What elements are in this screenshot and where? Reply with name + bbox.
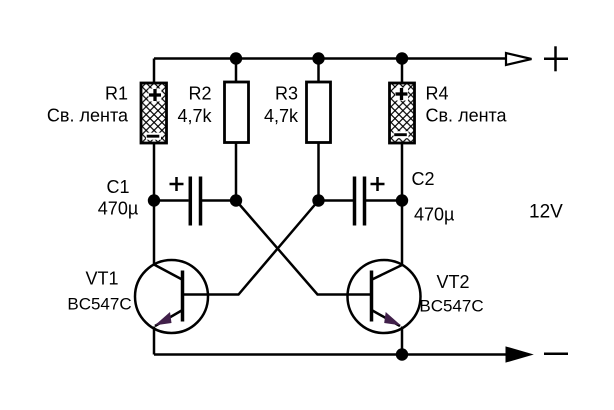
svg-text:R3: R3 [275,84,298,104]
resistor R3 [307,82,331,143]
wire node D down to VT2 collector [401,201,404,266]
node C (R3/C2) [312,194,324,206]
wire R1 top [153,59,156,84]
transistor VT1 [135,260,208,333]
transistor VT2 [348,260,421,333]
capacitor C2 [319,177,403,226]
wire R4 top [401,59,404,84]
wire node C to VT1 base (cross-coupling) [183,201,319,295]
top rail junction dot (R2) [230,52,242,64]
wire VT1 emitter to bottom rail [153,327,156,355]
top rail junction dot (R4) [396,52,408,64]
terminal arrow - (filled) [506,347,532,362]
svg-text:Св. лента: Св. лента [426,106,508,126]
svg-text:R2: R2 [188,84,211,104]
wire R3 bottom [317,143,320,201]
wire top rail [154,57,506,60]
plus symbol (supply +) [544,46,568,71]
svg-text:VT1: VT1 [85,269,118,289]
wire R3 top [317,59,320,83]
svg-text:BC547C: BC547C [67,295,131,314]
wire R2 top [235,59,238,83]
wire R2 bottom [235,143,238,201]
svg-text:VT2: VT2 [436,272,469,292]
svg-text:470µ: 470µ [98,199,138,219]
wire node B to VT2 base (cross-coupling) [236,201,372,295]
resistor R4 (light strip, hatched) [390,83,415,143]
svg-text:470µ: 470µ [414,205,454,225]
svg-text:C1: C1 [106,177,129,197]
node B (R2/C1) [230,194,242,206]
wire R1 bottom [153,143,156,201]
resistor R2 [225,82,249,143]
svg-text:12V: 12V [529,202,563,223]
wire R4 bottom [401,143,404,201]
svg-text:4,7k: 4,7k [177,106,212,126]
svg-text:C2: C2 [412,169,435,189]
node A (R1/C1/VT1 collector) [148,194,160,206]
capacitor C1 [154,177,236,226]
svg-text:4,7k: 4,7k [264,106,299,126]
terminal arrow + (open) [506,53,532,65]
minus symbol (supply -) [544,353,568,356]
svg-text:Св. лента: Св. лента [47,106,129,126]
wire node A down to VT1 collector [153,201,156,265]
wire VT2 emitter to bottom rail [401,327,404,355]
svg-text:R1: R1 [105,84,128,104]
node D (R4/C2/VT2 collector) [396,194,408,206]
wire bottom rail [154,353,506,356]
svg-text:BC547C: BC547C [419,297,483,316]
svg-text:R4: R4 [426,84,449,104]
node E (VT2 emitter / bottom rail) [396,348,408,360]
top rail junction dot (R3) [312,52,324,64]
resistor R1 (light strip, hatched) [141,83,167,143]
